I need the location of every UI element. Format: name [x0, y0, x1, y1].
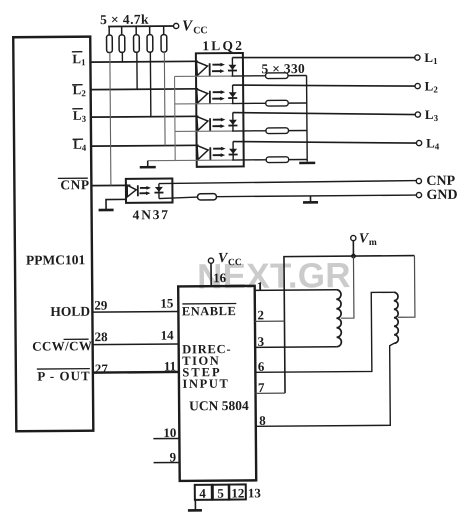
- label 5x4.7k: [100, 12, 149, 27]
- wire 330 common rail: [306, 75, 309, 161]
- inductor winding B: [394, 292, 399, 343]
- svg-text:CNP: CNP: [426, 174, 455, 189]
- pin label HOLD: [50, 304, 90, 319]
- wire Vcc to pin16: [210, 263, 212, 286]
- svg-text:4: 4: [199, 486, 206, 501]
- opto unit 4 LED: [197, 146, 210, 161]
- pin label L2bar: [72, 82, 86, 98]
- svg-text:2: 2: [257, 307, 264, 322]
- wire winding A centre tap to Vm: [340, 256, 353, 318]
- svg-text:16: 16: [213, 270, 227, 285]
- pin number 27: [95, 361, 109, 376]
- svg-text:8: 8: [259, 413, 266, 428]
- pin box 12: [229, 484, 246, 500]
- label DIRECTION: [182, 342, 231, 368]
- resistor R10 330: [197, 192, 416, 200]
- svg-text:L1: L1: [424, 50, 438, 66]
- wire R5 to L4 line: [163, 52, 166, 145]
- opto unit 3 LED: [197, 117, 210, 132]
- resistor R9 330: [266, 157, 307, 163]
- wire emitter to GND line: [159, 197, 198, 199]
- resistor R7 330: [266, 100, 307, 106]
- wire collector out 2 to terminal L2: [233, 84, 416, 88]
- svg-text:1: 1: [257, 279, 264, 294]
- opto unit 4 light arrows: [213, 147, 226, 157]
- svg-text:CNP: CNP: [60, 177, 89, 192]
- wire emitter 4: [148, 159, 266, 162]
- svg-text:5: 5: [217, 486, 224, 501]
- terminal L3: [415, 107, 438, 123]
- svg-text:CC: CC: [193, 25, 208, 36]
- svg-text:L4: L4: [426, 135, 440, 151]
- wire Vcc rail: [108, 25, 173, 28]
- svg-text:L1: L1: [72, 51, 86, 67]
- opto unit 2 photodiode: [228, 85, 237, 104]
- wire emitter 2: [175, 102, 266, 105]
- svg-text:13: 13: [248, 485, 262, 500]
- svg-text:14: 14: [161, 327, 175, 342]
- svg-text:15: 15: [160, 295, 174, 310]
- IC U4 UCN5804 box: [178, 286, 256, 481]
- wire LED cathode bus: [174, 76, 177, 160]
- ground below pin boxes: [188, 500, 202, 511]
- wire L3 from PPMC to opto3: [91, 115, 198, 118]
- pin label CNPbar: [58, 177, 90, 192]
- ground for 330 rail: [299, 162, 315, 165]
- svg-text:UCN 5804: UCN 5804: [189, 398, 249, 413]
- svg-text:27: 27: [95, 361, 109, 376]
- svg-text:PPMC101: PPMC101: [26, 252, 86, 267]
- svg-text:6: 6: [258, 359, 265, 374]
- svg-text:11: 11: [164, 358, 176, 373]
- svg-text:5 × 4.7k: 5 × 4.7k: [100, 12, 149, 27]
- wire Vm rail: [284, 256, 416, 394]
- svg-text:CCW/CW: CCW/CW: [32, 338, 92, 353]
- wire Vm down to rail: [352, 241, 354, 256]
- pin number 13: [248, 485, 262, 500]
- pin box 4: [195, 485, 212, 501]
- wire pin3 to winding A bottom: [255, 333, 337, 349]
- pin number 28: [95, 329, 109, 344]
- resistor R6 330: [266, 73, 307, 79]
- svg-text:HOLD: HOLD: [50, 304, 90, 319]
- wire CCW pin28 to pin14: [93, 343, 179, 346]
- wire pin7 to Vm bus: [255, 380, 285, 395]
- resistor R3 4.7k: [133, 26, 139, 52]
- opto unit 3 photodiode: [228, 112, 237, 131]
- wire pin1 to winding A top: [255, 278, 337, 294]
- opto unit 2 LED: [197, 89, 210, 104]
- stub pin 10: [153, 425, 179, 440]
- svg-text:L2: L2: [425, 78, 439, 94]
- pin label L1bar: [72, 51, 86, 67]
- IC U1 PPMC101: [13, 37, 93, 432]
- svg-text:29: 29: [94, 298, 108, 313]
- optocoupler U3 4N37 box: [126, 179, 173, 223]
- svg-text:L3: L3: [425, 107, 439, 123]
- wire collector out 3 to terminal L3: [233, 111, 416, 116]
- terminal L2: [415, 78, 438, 94]
- wire pin6 to winding B top: [255, 292, 395, 374]
- wire R2 to L1 line: [121, 52, 123, 61]
- Vcc terminal top: [173, 18, 207, 36]
- 4N37 light arrows: [139, 186, 151, 195]
- 4N37 LED: [127, 185, 138, 197]
- wire R1 to CNP line: [110, 52, 111, 185]
- svg-text:4N37: 4N37: [133, 207, 170, 222]
- wire pin8 to winding B bottom: [255, 343, 395, 428]
- svg-text:CC: CC: [228, 258, 242, 268]
- opto unit 2 light arrows: [212, 90, 225, 100]
- terminal CNP: [416, 174, 455, 189]
- wire collector out 1 to terminal L1: [232, 56, 415, 59]
- wire L4 from PPMC to opto4: [91, 144, 198, 147]
- opto unit 1 photodiode: [228, 57, 237, 76]
- ground for LED cathodes: [140, 161, 156, 168]
- terminal L4: [416, 135, 439, 151]
- wire CNP from PPMC to 4N37: [91, 184, 130, 186]
- wire pin2 to Vm bus: [255, 307, 285, 322]
- pin number 11: [164, 358, 176, 373]
- resistor R2 4.7k: [119, 26, 125, 52]
- pin label L3bar: [72, 108, 86, 124]
- ground on GND line: [303, 196, 318, 203]
- svg-text:ENABLE: ENABLE: [182, 304, 237, 318]
- inductor winding A: [336, 290, 341, 347]
- label 5x330: [261, 61, 305, 76]
- svg-text:L3: L3: [73, 108, 87, 124]
- svg-text:m: m: [369, 238, 377, 248]
- wire 4N37 LED cathode to ground: [99, 199, 127, 210]
- wire winding B centre tap to Vm rail: [397, 256, 414, 318]
- resistor R1 4.7k: [106, 26, 112, 52]
- label STEP INPUT: [182, 365, 229, 391]
- wire emitter 1: [175, 75, 266, 78]
- node Vm junction: [351, 254, 356, 259]
- resistor R4 4.7k: [147, 26, 153, 52]
- svg-text:9: 9: [169, 449, 176, 464]
- wire R3 to L2 line: [136, 52, 138, 89]
- 4N37 photodiode: [154, 184, 163, 199]
- wire P-OUT pin27 to pin11: [93, 371, 179, 374]
- watermark NEXT.GR: [197, 256, 351, 296]
- pin number 29: [94, 298, 108, 313]
- resistor R8 330: [266, 128, 307, 134]
- Vm terminal: [351, 231, 377, 248]
- wire R4 to L3 line: [149, 52, 152, 116]
- wire HOLD pin29 to pin15: [92, 310, 178, 313]
- terminal GND: [416, 188, 457, 203]
- svg-text:GND: GND: [426, 188, 457, 203]
- opto unit 3 light arrows: [212, 118, 225, 128]
- pin label P-OUTbar: [37, 368, 91, 383]
- svg-text:12: 12: [231, 485, 244, 500]
- svg-text:7: 7: [258, 380, 265, 395]
- pin number 14: [161, 327, 175, 342]
- wire L2 from PPMC to opto2: [91, 88, 198, 91]
- pin box 5: [213, 485, 229, 501]
- pin number 15: [160, 295, 174, 310]
- pin number 16: [213, 270, 227, 285]
- wire CNP output to terminal: [159, 181, 416, 184]
- svg-text:INPUT: INPUT: [182, 377, 229, 391]
- opto unit 4 photodiode: [229, 141, 238, 160]
- svg-text:5 × 330: 5 × 330: [261, 61, 305, 76]
- label ENABLEbar: [182, 304, 237, 319]
- pin label L4bar: [73, 137, 87, 153]
- wire L1 from PPMC to opto1: [90, 60, 197, 63]
- opto unit 1 LED: [196, 62, 209, 77]
- pin label CCW/CWbar: [32, 338, 92, 353]
- terminal L1: [415, 50, 438, 66]
- stub pin 9: [153, 449, 179, 464]
- wire emitter 3: [175, 130, 266, 133]
- resistor R5 4.7k: [161, 26, 167, 52]
- Vcc terminal mid: [208, 251, 242, 268]
- svg-text:P - OUT: P - OUT: [37, 368, 90, 383]
- svg-text:1LQ2: 1LQ2: [202, 38, 244, 53]
- wire collector out 4 to terminal L4: [233, 140, 417, 144]
- optocoupler U2 1LQ2 box: [196, 38, 245, 167]
- svg-text:28: 28: [95, 329, 109, 344]
- opto unit 1 light arrows: [212, 63, 225, 73]
- svg-text:10: 10: [163, 425, 176, 440]
